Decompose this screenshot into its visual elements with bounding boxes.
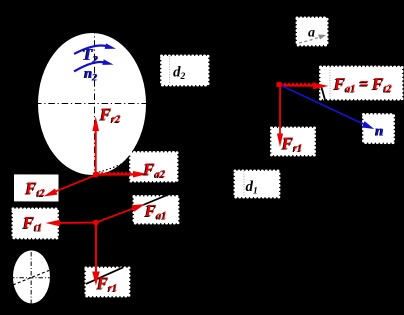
pinion vertical centerline [30, 252, 32, 304]
label box Fr1 right [272, 128, 315, 155]
tooth trace dotted curve on gear 2 [99, 154, 149, 172]
label box Fa1 [134, 196, 178, 223]
gear 2 ellipse [38, 33, 146, 175]
force arrow Fa1=Ft2 (wavy axial) [279, 83, 329, 90]
label box Fr1 left [86, 268, 129, 296]
force arrow Fr1 right [277, 85, 283, 148]
label box d2 [162, 56, 209, 85]
gear 2 horizontal centerline [35, 102, 155, 104]
junction node gear2 mesh point [93, 171, 99, 177]
force arrow Ft1 [45, 220, 96, 227]
label box Ft1 [13, 209, 58, 238]
force arrow Ft2 [43, 175, 96, 197]
force arrow Fr2 [92, 116, 99, 175]
pinion tooth trace line through Fr1 box [86, 267, 123, 284]
label box Ft2 [14, 174, 59, 201]
label box n [364, 115, 394, 143]
origin node of force triangle [277, 82, 282, 87]
force arrow Fa2 (wavy axial) [96, 171, 148, 178]
svg-text:Fa1 = Ft2: Fa1 = Ft2 [333, 74, 393, 95]
angle leader dashed arrow [299, 35, 326, 44]
label box Fa2 [130, 152, 177, 181]
svg-text:a: a [308, 26, 315, 41]
rotation arc n2 [74, 59, 114, 71]
label box d1 [235, 171, 279, 197]
tooth normal short black line [322, 88, 328, 108]
pinion tooth trace line through Fa1 box [143, 191, 178, 205]
force arrow Fa1 [96, 204, 145, 222]
force arrow Fr1 left [92, 223, 100, 286]
gear 2 vertical centerline [93, 27, 95, 179]
torque arc T2 [74, 43, 116, 54]
label box a [297, 18, 327, 45]
pinion dashed helix line [13, 270, 49, 285]
label box Fa1=Ft2 [321, 67, 403, 99]
svg-text:n: n [376, 124, 384, 140]
pinion horizontal centerline [10, 277, 53, 279]
normal direction arrow n [279, 85, 374, 130]
junction node pinion mesh point [93, 220, 99, 226]
pinion 1 end-view ellipse [13, 250, 50, 303]
